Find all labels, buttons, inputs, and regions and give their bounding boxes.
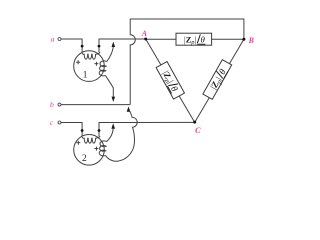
wattmeter W2 potential lead to line b with arrow and hop over line c [105, 110, 137, 161]
wire: line b riser with hop over line a, top run to node B [130, 19, 244, 105]
svg-text:A: A [141, 29, 147, 38]
terminal a [58, 38, 61, 41]
node A [144, 38, 147, 41]
wire: delta edge A-B [146, 38, 244, 40]
impedance Zp box on edge A-C [155, 62, 184, 100]
wattmeter W1 current coil [82, 52, 100, 59]
wattmeter W1 potential lead to line a with arrow [107, 47, 114, 62]
wattmeter W2 body [74, 135, 105, 166]
svg-text:b: b [50, 100, 54, 109]
node C [193, 121, 196, 124]
impedance Zp box on edge A-B [176, 33, 212, 46]
plus mark W2 current coil [76, 141, 80, 145]
plus mark W1 potential coil [94, 62, 98, 66]
wattmeter W1 body [74, 51, 105, 82]
plus mark W1 current coil [76, 60, 80, 64]
svg-text:B: B [248, 36, 254, 45]
svg-text:a: a [51, 34, 55, 43]
junction dot on W1 current coil left lead [81, 45, 84, 48]
svg-text:C: C [195, 126, 201, 135]
wire: line a from current-coil of wattmeter 1 to node A [99, 39, 146, 52]
wire: line a from terminal a to current-coil of wattmeter 1 [61, 39, 82, 53]
wire: delta edge B-C [195, 39, 244, 122]
wattmeter W1 potential coil [99, 61, 106, 76]
wire: line b from terminal b to riser [61, 104, 130, 106]
node B [242, 38, 245, 41]
junction dot on W2 current coil left lead [81, 129, 84, 132]
wire: delta edge A-C [146, 39, 195, 122]
wattmeter W2 potential coil [99, 141, 106, 156]
junction dot on W2 current coil right lead [98, 129, 101, 132]
wattmeter W2 current coil [82, 136, 100, 143]
plus mark W2 potential coil [94, 147, 98, 151]
wire: line c from current-coil of wattmeter 2 to node C [99, 122, 195, 136]
wattmeter W2 potential lead to line c with arrow [107, 129, 114, 142]
impedance Zp box on edge B-C [203, 60, 233, 101]
wire: line c from terminal c to current-coil of wattmeter 2 [61, 123, 82, 138]
svg-text:c: c [50, 118, 54, 127]
wattmeter W1 potential lead to line b with arrow [105, 75, 113, 96]
svg-text:2: 2 [82, 154, 87, 164]
terminal b [58, 103, 61, 106]
svg-text:1: 1 [83, 70, 88, 80]
terminal c [58, 121, 61, 124]
junction dot on W1 current coil right lead [98, 45, 101, 48]
